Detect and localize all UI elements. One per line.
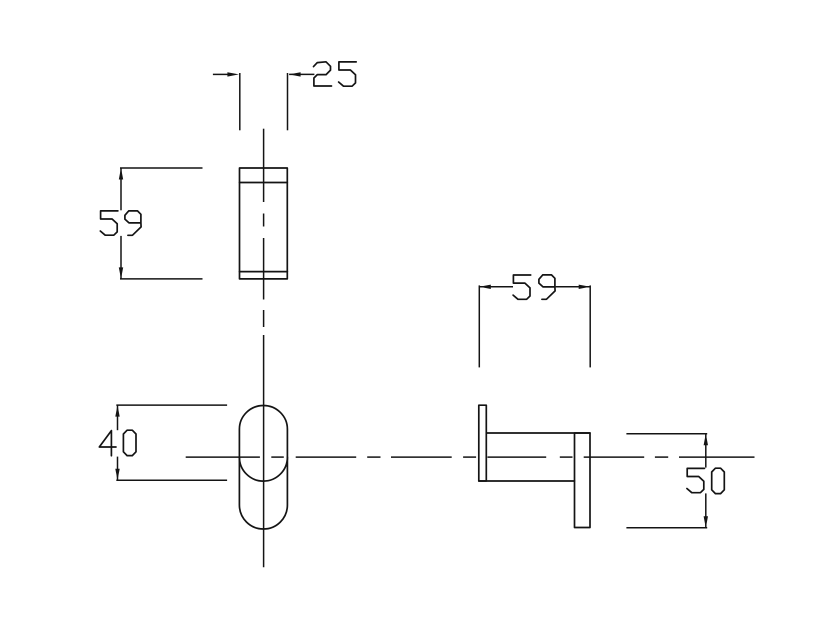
dim 40 line upper segment	[117, 405, 119, 430]
dim 59 right left arrowhead	[479, 285, 491, 289]
dim text 40 digit 0	[123, 430, 136, 455]
dim 25 left extension line	[239, 73, 241, 130]
dim 59 right right extension line	[589, 285, 591, 367]
side view wall plate	[479, 405, 487, 481]
dim 59 right line right segment	[556, 286, 591, 288]
dim 50 line lower segment	[705, 493, 707, 527]
dim 50 top arrowhead	[704, 434, 708, 446]
dim text 59 right digit 5	[513, 275, 531, 299]
dim 25 right tail	[289, 73, 314, 75]
dim text 50 digit 5	[687, 468, 705, 492]
dim 59 left line upper segment	[120, 168, 122, 210]
dim text 59 left digit 9	[125, 211, 141, 235]
dim 25 left arrowhead	[227, 72, 239, 76]
plan view capsule outline	[239, 406, 287, 529]
side view arm bottom line	[479, 480, 575, 482]
dim text 25 digit 5	[339, 62, 357, 86]
dim text 40 digit 4	[99, 431, 116, 456]
dim 40 line lower segment	[117, 457, 119, 481]
dim 25 right extension line	[287, 73, 289, 130]
dim 59 left line lower segment	[120, 236, 122, 279]
dim 50 bottom arrowhead	[704, 516, 708, 528]
plan view inner arc	[239, 457, 287, 481]
dim 50 line upper segment	[705, 434, 707, 468]
dim 59 left top extension line	[120, 167, 203, 169]
dim 59 right right arrowhead	[579, 285, 591, 289]
dim text 50 digit 0	[712, 468, 725, 493]
dim 40 top extension line	[116, 404, 227, 406]
front view body rectangle	[240, 168, 288, 279]
dim 59 right left extension line	[478, 285, 480, 367]
front view bottom cap line	[240, 271, 288, 273]
front view top cap line	[240, 182, 288, 184]
dim 40 top arrowhead	[115, 405, 119, 417]
dim 59 left bottom arrowhead	[119, 267, 123, 279]
dim text 59 right digit 9	[539, 275, 555, 299]
dim 50 bottom extension line	[626, 527, 707, 529]
side view arm top line	[486, 432, 590, 434]
dim 25 left tail	[213, 73, 229, 75]
dim 25 right arrowhead	[289, 72, 301, 76]
dim text 25 digit 2	[314, 62, 332, 86]
dim 40 bottom arrowhead	[115, 469, 119, 481]
dim 50 top extension line	[626, 433, 707, 435]
horizontal centerline	[186, 456, 260, 458]
dim text 59 left digit 5	[100, 211, 118, 235]
vertical centerline	[263, 129, 265, 202]
dim 59 right line left segment	[479, 286, 513, 288]
dim 59 left bottom extension line	[120, 278, 203, 280]
dim 40 bottom extension line	[116, 479, 227, 481]
dim 59 left top arrowhead	[119, 168, 123, 180]
side view hook rectangle	[575, 433, 591, 528]
